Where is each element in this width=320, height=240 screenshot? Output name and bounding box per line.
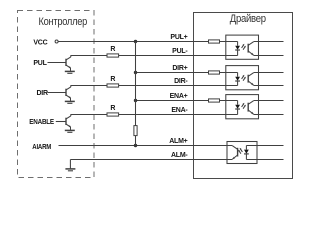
svg-text:ENA+: ENA+ xyxy=(170,93,188,100)
wire DIR- row xyxy=(71,85,238,87)
svg-text:R: R xyxy=(110,46,115,53)
svg-text:PUL+: PUL+ xyxy=(170,34,187,41)
junction bus-ALM+ xyxy=(134,144,137,147)
wire ALM+ row xyxy=(59,145,233,147)
opto-isolator U2 (DIR) xyxy=(226,66,259,90)
wire PUL- row xyxy=(71,55,238,57)
wire U2 (DIR) emitter out xyxy=(254,85,284,87)
wire ALM- stub down xyxy=(69,160,71,169)
svg-text:VCC: VCC xyxy=(33,39,47,46)
svg-text:Контроллер: Контроллер xyxy=(39,16,88,28)
wire U4 anode out xyxy=(246,145,283,147)
wire ENABLE base xyxy=(56,121,66,123)
wire U3 (ENA) emitter out xyxy=(254,114,284,116)
svg-text:ENABLE: ENABLE xyxy=(29,119,54,126)
wire U4 cathode out xyxy=(246,159,283,161)
junction bus-DIR+ xyxy=(134,71,137,74)
wire VCC / PUL+ xyxy=(58,41,237,43)
resistor R2 xyxy=(107,76,119,87)
resistor R3 xyxy=(107,105,119,116)
svg-text:ALM-: ALM- xyxy=(171,152,188,159)
ground of Q1 (PUL) xyxy=(65,68,75,73)
resistor R6 (DIR+ input) xyxy=(209,71,220,74)
wire ENA- row xyxy=(71,114,238,116)
ground ALM- xyxy=(65,169,75,171)
svg-text:PUL-: PUL- xyxy=(172,48,188,55)
bus vertical wire xyxy=(135,42,137,126)
opto-isolator U4 (ALM, mirrored) xyxy=(227,142,257,164)
VCC terminal xyxy=(55,40,58,43)
svg-text:PUL: PUL xyxy=(33,60,47,67)
opto-isolator U3 (ENA) xyxy=(226,95,259,119)
junction bus-ENA+ xyxy=(134,99,137,102)
svg-text:ALM+: ALM+ xyxy=(169,138,187,145)
wire ENA+ row xyxy=(136,100,238,102)
transistor Q3 (ENABLE) xyxy=(66,114,71,127)
ground of Q3 (ENABLE) xyxy=(65,127,75,132)
bus wire below R4 xyxy=(135,136,137,146)
junction bus-VCC xyxy=(134,40,137,43)
wire DIR+ row xyxy=(136,72,238,74)
resistor R1 xyxy=(107,46,119,57)
svg-text:DIR+: DIR+ xyxy=(172,65,187,72)
svg-text:DIR: DIR xyxy=(37,90,49,97)
wire ALM- row xyxy=(70,159,232,161)
svg-text:AIARM: AIARM xyxy=(32,144,51,151)
resistor R7 (ENA+ input) xyxy=(209,99,220,102)
resistor R4 (bus pull, vertical) xyxy=(134,126,137,136)
wire U2 (DIR) collector out xyxy=(254,72,284,74)
transistor Q1 (PUL) xyxy=(66,55,71,68)
svg-text:ENA-: ENA- xyxy=(171,107,188,114)
svg-text:DIR-: DIR- xyxy=(174,78,188,85)
wire PUL base xyxy=(48,62,66,64)
wire U1 (PUL) emitter out xyxy=(254,55,284,57)
driver box xyxy=(194,13,293,179)
opto-isolator U1 (PUL) xyxy=(226,35,259,59)
svg-text:Драйвер: Драйвер xyxy=(230,13,266,25)
wire U3 (ENA) collector out xyxy=(254,100,284,102)
resistor R5 (PUL+ input) xyxy=(209,40,220,43)
wire U1 (PUL) collector out xyxy=(254,41,284,43)
svg-text:R: R xyxy=(110,105,115,112)
controller box xyxy=(18,11,95,178)
svg-text:R: R xyxy=(110,76,115,83)
ground of Q2 (DIR) xyxy=(65,98,75,103)
transistor Q2 (DIR) xyxy=(66,85,71,98)
wire DIR base xyxy=(48,92,66,94)
